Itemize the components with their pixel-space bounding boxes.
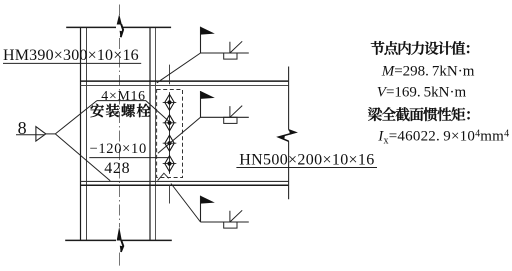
weld symbol W1 (beam top flange) bevel-groove symbol — [230, 41, 242, 53]
column left flange inner face — [86, 27, 88, 240]
weld symbol W2 (shear plate) leader — [158, 117, 201, 153]
svg-text:HN500×200×10×16: HN500×200×10×16 — [239, 151, 374, 168]
weld symbol W1 (beam top flange) reference line — [201, 52, 249, 54]
label HN500x200x10x16 (beam) — [236, 151, 377, 168]
beam bottom flange top line — [81, 180, 289, 182]
svg-text:428: 428 — [104, 160, 130, 177]
label 428 — [104, 160, 130, 177]
break symbol at column top — [117, 14, 123, 38]
weld symbol W2 (shear plate) reference line — [201, 116, 249, 118]
svg-text:V=169. 5kN·m: V=169. 5kN·m — [377, 84, 467, 100]
plate break mark — [158, 173, 169, 180]
weld symbol W3 (beam bottom flange) reference line — [201, 221, 249, 223]
column top cut line — [66, 26, 171, 28]
break symbol on beam end — [278, 130, 296, 142]
beam top flange bottom line — [81, 84, 289, 86]
svg-text:HM390×300×10×16: HM390×300×10×16 — [3, 47, 139, 64]
weld symbol W2 (shear plate) bevel-groove symbol — [230, 106, 242, 118]
weld symbol W1 (beam top flange) backing bar symbol — [224, 53, 237, 59]
weld size label 8 — [16, 118, 45, 138]
label 4xM16 underline and leader to bolts — [97, 101, 169, 122]
weld symbol W3 (beam bottom flange) field-weld flag — [201, 196, 215, 222]
bolt gauge line above top flange — [169, 65, 171, 85]
shear plate -120x10 (hidden, dashed) — [157, 90, 183, 178]
note line 2: M value — [381, 63, 475, 79]
weld symbol W2 (shear plate) backing bar symbol — [224, 117, 237, 123]
label anzhuangluoshuan (erection bolts) — [90, 104, 150, 118]
weld symbol W3 (beam bottom flange) backing bar symbol — [224, 222, 237, 228]
label 4xM16 — [101, 88, 146, 103]
column right flange outer face — [155, 27, 157, 240]
weld symbol W2 (shear plate) field-weld flag — [201, 91, 215, 117]
callout branch to plate — [55, 134, 110, 181]
hollow arrow of weld size callout — [36, 127, 55, 142]
break symbol at column bottom — [117, 227, 124, 252]
svg-text:−120×10: −120×10 — [90, 141, 147, 157]
weld symbol W3 (beam bottom flange) bevel-groove symbol — [230, 210, 242, 222]
bolt B4 (M16 erection bolt symbol) — [163, 153, 177, 174]
weld symbol W1 (beam top flange) field-weld flag — [201, 27, 215, 53]
beam top flange top line / column continuity plate — [81, 80, 289, 82]
column centerline (dash-dot) — [119, 5, 121, 266]
weld symbol W1 (beam top flange) leader — [157, 53, 201, 83]
leader bar from plate label to plate — [89, 157, 169, 159]
bolt B2 (M16 erection bolt symbol) — [163, 113, 177, 134]
note line 3: V value — [377, 84, 467, 100]
bolt B3 (M16 erection bolt symbol) — [163, 133, 177, 154]
column left flange outer face — [80, 27, 82, 240]
column bottom cut line — [65, 239, 172, 241]
label -120x10 — [90, 141, 147, 157]
column right flange inner face — [149, 27, 151, 240]
note line 5: Ix value — [377, 129, 509, 147]
label HM390x300x10x16 (column) — [3, 47, 141, 64]
beam end cut line — [288, 67, 290, 200]
bolt B1 (M16 erection bolt symbol) — [163, 92, 177, 113]
beam bottom flange bottom line / column continuity plate — [81, 184, 289, 186]
callout branch to bolt label — [55, 101, 97, 134]
note line 1: design internal forces — [371, 41, 470, 55]
bolt gauge line below bottom flange — [169, 185, 171, 203]
svg-text:Ix=46022. 9×104mm4: Ix=46022. 9×104mm4 — [377, 129, 509, 147]
svg-text:M=298. 7kN·m: M=298. 7kN·m — [381, 63, 475, 79]
weld symbol W3 (beam bottom flange) leader — [171, 184, 201, 223]
note line 4: beam section inertia caption — [368, 107, 470, 121]
